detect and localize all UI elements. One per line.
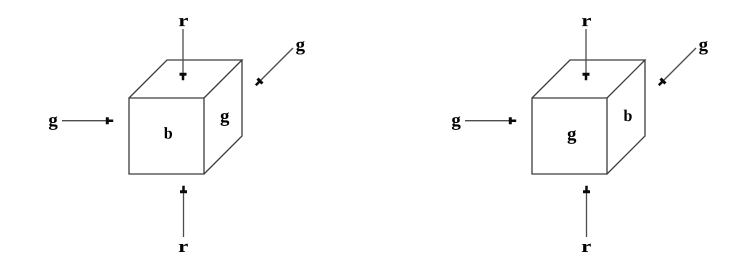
cube 1 top arrow shaft: [182, 29, 184, 74]
cube 1 diagonal arrow shaft: [261, 48, 294, 81]
cube 2 right face label b: [624, 110, 632, 122]
cube 2 right face: [607, 60, 645, 174]
cube 2 top face: [532, 60, 645, 98]
cube 2 top arrow shaft: [585, 29, 587, 74]
cube 1 bottom label r: [179, 244, 188, 252]
cube 2 left arrow shaft: [465, 120, 510, 122]
cube 1 front face: [129, 98, 204, 174]
cube 2 bottom arrowhead: [583, 186, 590, 193]
cube 1 right face: [204, 60, 242, 174]
cube 1 top arrowhead: [180, 73, 187, 80]
cube 2 front face label g: [568, 130, 577, 144]
cube 2 top label r: [582, 18, 591, 26]
cube 1 top label r: [179, 18, 188, 26]
cube 1 front face label b: [164, 127, 172, 139]
cube 2 left label g: [452, 116, 461, 130]
cube 1 left arrow shaft: [62, 120, 107, 122]
cube 1 diagonal arrowhead: [255, 77, 264, 86]
cube 2 diagonal arrowhead: [658, 77, 667, 86]
cube 2 bottom arrow shaft: [586, 192, 588, 237]
cube 1 left arrowhead: [106, 117, 113, 124]
cube 2 top arrowhead: [583, 73, 590, 80]
cube 1 left label g: [49, 116, 58, 130]
cube 2 diagonal label g: [699, 41, 708, 55]
cube 1 diagonal label g: [296, 41, 305, 55]
cube 1 right face label g: [221, 112, 230, 126]
cube 2 front face: [532, 98, 607, 174]
cube 2 left arrowhead: [509, 117, 516, 124]
cube 2 diagonal arrow shaft: [664, 48, 697, 81]
cube 1 top face: [129, 60, 242, 98]
cube 1 bottom arrowhead: [180, 186, 187, 193]
cube 1 bottom arrow shaft: [183, 192, 185, 237]
cube 2 bottom label r: [582, 244, 591, 252]
